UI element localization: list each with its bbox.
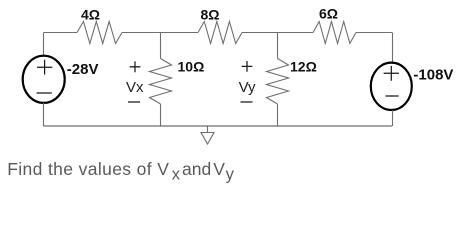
- resistor R3 6ohm: [313, 22, 356, 44]
- node B vertical wire (top of 12ohm): [277, 33, 279, 59]
- node A vertical wire (top of 10ohm): [160, 33, 162, 59]
- wire below 10ohm: [160, 104, 162, 126]
- svg-text:6Ω: 6Ω: [319, 5, 338, 21]
- svg-text:4Ω: 4Ω: [81, 6, 100, 22]
- V2 minus sign: [386, 95, 399, 97]
- wire top-right horizontal: [356, 32, 392, 34]
- ground: [201, 133, 214, 145]
- Vy minus polarity: [241, 101, 253, 103]
- wire top mid-right: [242, 32, 313, 34]
- Vx minus polarity: [128, 101, 140, 103]
- svg-text:10Ω: 10Ω: [178, 59, 205, 75]
- resistor R2 8ohm: [198, 22, 242, 44]
- voltage source V2: [371, 63, 412, 110]
- wire right vertical lower: [392, 110, 394, 126]
- svg-text:-108V: -108V: [413, 66, 453, 83]
- resistor R4 10ohm: [150, 59, 172, 105]
- svg-text:12Ω: 12Ω: [290, 59, 317, 75]
- svg-text:Vy: Vy: [239, 79, 256, 96]
- wire top-left horizontal: [44, 32, 78, 34]
- V1 minus sign: [37, 92, 52, 94]
- V2 plus sign: [384, 66, 399, 81]
- resistor R1 4ohm: [77, 22, 122, 44]
- resistor R5 12ohm: [267, 59, 289, 105]
- svg-text:8Ω: 8Ω: [201, 7, 220, 23]
- wire left vertical upper: [43, 33, 45, 56]
- Vx plus polarity: [130, 61, 141, 72]
- V1 plus sign: [37, 60, 52, 75]
- wire below 12ohm: [277, 104, 279, 126]
- wire bottom horizontal: [44, 125, 393, 127]
- voltage source V1: [23, 56, 65, 103]
- svg-text:-28V: -28V: [67, 61, 99, 78]
- svg-text:Vx: Vx: [126, 79, 144, 96]
- Vy plus polarity: [242, 61, 253, 72]
- wire right vertical upper: [392, 33, 394, 63]
- ground stub wire: [207, 126, 209, 133]
- wire top mid-left: [122, 32, 198, 34]
- svg-text:Find the values of VxandVy: Find the values of VxandVy: [7, 159, 234, 183]
- wire left vertical lower: [43, 103, 45, 126]
